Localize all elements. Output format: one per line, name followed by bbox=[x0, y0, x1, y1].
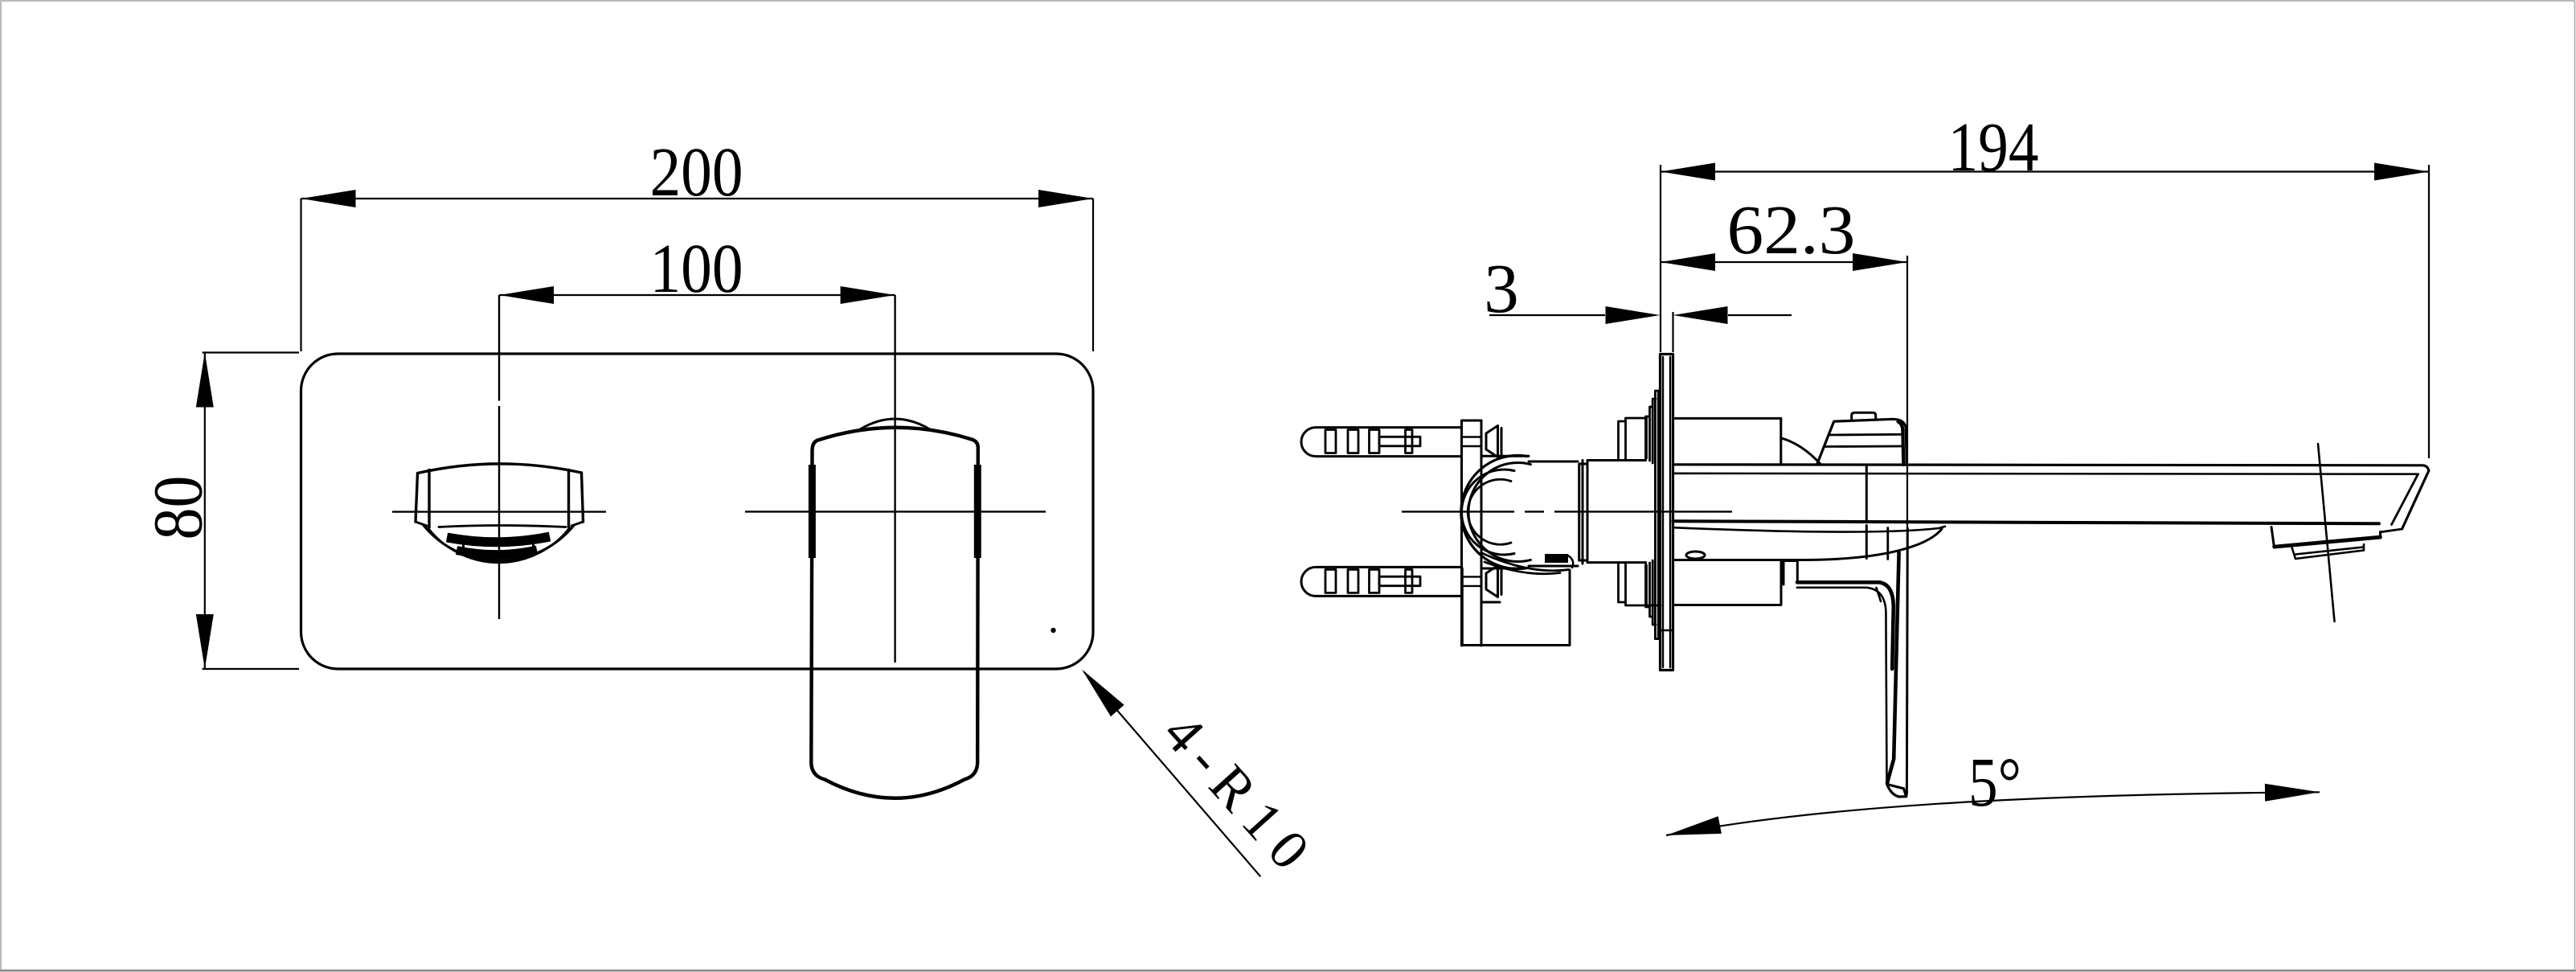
dim 100 arrow left bbox=[499, 286, 554, 304]
dim 194 ext lines bbox=[1661, 165, 2429, 458]
dim 3 arrow right bbox=[1673, 306, 1728, 324]
wall plate side inner lines bbox=[1661, 357, 1673, 667]
handle centerline horizontal bbox=[745, 511, 1046, 512]
wall anchor bottom screw cross bbox=[1379, 569, 1420, 593]
spout bottom edge thick bbox=[1673, 521, 2380, 523]
handle left edge accent bbox=[809, 465, 816, 558]
handle top slanted box bbox=[1817, 419, 1907, 465]
mounting bracket plate bbox=[1462, 420, 1482, 646]
screw head top bbox=[1486, 426, 1501, 457]
dim 194 line bbox=[1661, 170, 2429, 172]
centerline right view bbox=[1402, 511, 1732, 512]
spout front body bbox=[416, 464, 584, 527]
dim 62.3 line bbox=[1661, 261, 1907, 263]
spout tip bevel inner bbox=[2392, 474, 2418, 525]
aerator step B bbox=[2292, 544, 2365, 559]
cover box bbox=[1673, 418, 1781, 464]
handle top right edge thick bbox=[1898, 422, 1904, 465]
lever neck verticals bbox=[1784, 561, 1797, 585]
dim 200 arrow left bbox=[301, 190, 356, 207]
leader 4-R10 line bbox=[1084, 672, 1260, 876]
handle front outline bbox=[811, 428, 978, 798]
dim 80 arrow down bbox=[196, 614, 214, 669]
elbow outer arc bbox=[1461, 456, 1528, 569]
wall anchor top body bbox=[1301, 428, 1460, 457]
aerator crossing line bbox=[2318, 444, 2335, 621]
aerator dark ring upper bbox=[447, 537, 550, 543]
lever front edge through spout bbox=[1865, 465, 1868, 559]
valve lower box bbox=[1462, 568, 1570, 646]
svg-text:100: 100 bbox=[650, 229, 743, 307]
dim 3 ext bbox=[1672, 312, 1673, 352]
aerator side ticks bbox=[464, 539, 534, 548]
spout bowl outer arc bbox=[424, 526, 574, 561]
dim 80 ext lines bbox=[203, 353, 299, 670]
dome arc bbox=[1781, 438, 1821, 465]
flange steps top bbox=[1647, 391, 1659, 639]
svg-text:5°: 5° bbox=[1968, 743, 2021, 821]
dim 3 lines bbox=[1489, 314, 1792, 316]
lever blade front thick bbox=[1887, 553, 1899, 784]
screw shank bottom bbox=[1462, 576, 1482, 586]
dim 200 ext lines bbox=[301, 199, 1094, 351]
dim 194 arrow left bbox=[1661, 163, 1715, 181]
wall anchor bottom slots bbox=[1325, 569, 1379, 593]
spout tip bevel outer bbox=[2402, 471, 2429, 530]
wall anchor bottom body bbox=[1301, 567, 1460, 596]
dim 62.3 ext right bbox=[1906, 256, 1908, 528]
escutcheon plate front bbox=[301, 354, 1094, 669]
elbow top edge bbox=[1481, 455, 1529, 457]
elbow arc 4 bbox=[1468, 479, 1511, 544]
aerator dark ring lower bbox=[457, 550, 537, 555]
aerator step A bbox=[2271, 527, 2381, 548]
stray dot bbox=[1050, 628, 1055, 633]
wall plate side bbox=[1661, 355, 1673, 671]
spout bowl inner lip arc bbox=[428, 528, 570, 563]
elbow arc 2 bbox=[1468, 463, 1530, 562]
svg-text:3: 3 bbox=[1484, 249, 1519, 327]
cartridge stem steps bottom bbox=[1619, 563, 1661, 607]
dim 5deg arrow right bbox=[2265, 784, 2320, 802]
lever blade right edge bbox=[1906, 528, 1909, 793]
bevel foot link bbox=[2381, 529, 2402, 532]
dim 80 line bbox=[204, 353, 206, 670]
cartridge housing bbox=[1579, 461, 1646, 563]
wall anchor top screw cross bbox=[1379, 430, 1420, 453]
lever hidden tick bbox=[1886, 528, 1889, 560]
dim 3 arrow left bbox=[1606, 306, 1661, 324]
spout top edge bbox=[1673, 465, 2429, 471]
set screw ellipse bbox=[1686, 552, 1705, 559]
dim 62.3 arrow left bbox=[1661, 253, 1715, 271]
valve clip hook bbox=[1568, 556, 1573, 568]
dim 62.3 arrow right bbox=[1853, 253, 1907, 271]
lever neck top thick bbox=[1797, 582, 1894, 669]
dim 200 line bbox=[301, 198, 1094, 199]
svg-text:62.3: 62.3 bbox=[1727, 191, 1856, 269]
spout centerline horizontal bbox=[392, 511, 606, 512]
handle top internal lines bbox=[1824, 434, 1901, 446]
horn bottom curve bbox=[1673, 529, 1943, 560]
dim 100 arrow right bbox=[841, 286, 895, 304]
flange steps bottom bbox=[1647, 560, 1657, 625]
spout centerline vertical bbox=[498, 295, 500, 619]
handle centerline vertical bbox=[894, 295, 895, 662]
cartridge stem steps top bbox=[1619, 416, 1646, 461]
svg-text:80: 80 bbox=[139, 476, 217, 540]
lever neck inner line bbox=[1797, 588, 1887, 784]
spout under thin line bbox=[1673, 527, 1945, 532]
dim 5deg arc bbox=[1666, 792, 2320, 835]
aerator step A bottom thick bbox=[2275, 537, 2381, 547]
handle crown arc bbox=[860, 419, 930, 429]
wall anchor top slots bbox=[1325, 430, 1379, 453]
dim 100 line bbox=[499, 294, 895, 296]
spout front lower steps bbox=[416, 522, 584, 527]
spout top second line bbox=[1673, 472, 2418, 475]
handle right edge accent bbox=[974, 465, 981, 558]
svg-text:200: 200 bbox=[650, 133, 743, 211]
dim 80 arrow up bbox=[196, 353, 214, 408]
valve clip black bbox=[1545, 554, 1568, 563]
svg-text:194: 194 bbox=[1948, 108, 2039, 186]
elbow bottom sweep arcs bbox=[1482, 553, 1569, 574]
screw head bottom bbox=[1486, 566, 1501, 597]
leader 4-R10 arrow bbox=[1082, 670, 1124, 717]
dim 200 arrow right bbox=[1038, 190, 1093, 207]
elbow arc 3 bbox=[1461, 470, 1514, 555]
aerator bottom thin arc bbox=[467, 555, 530, 560]
lever tip bbox=[1887, 784, 1907, 797]
dim 5deg arrow left bbox=[1666, 816, 1722, 835]
screw shank top bbox=[1462, 437, 1482, 447]
under box bbox=[1673, 561, 1782, 605]
dim 194 arrow right bbox=[2374, 163, 2429, 181]
handle top tab bbox=[1852, 412, 1876, 419]
cartridge cylinder bbox=[1529, 461, 1583, 567]
